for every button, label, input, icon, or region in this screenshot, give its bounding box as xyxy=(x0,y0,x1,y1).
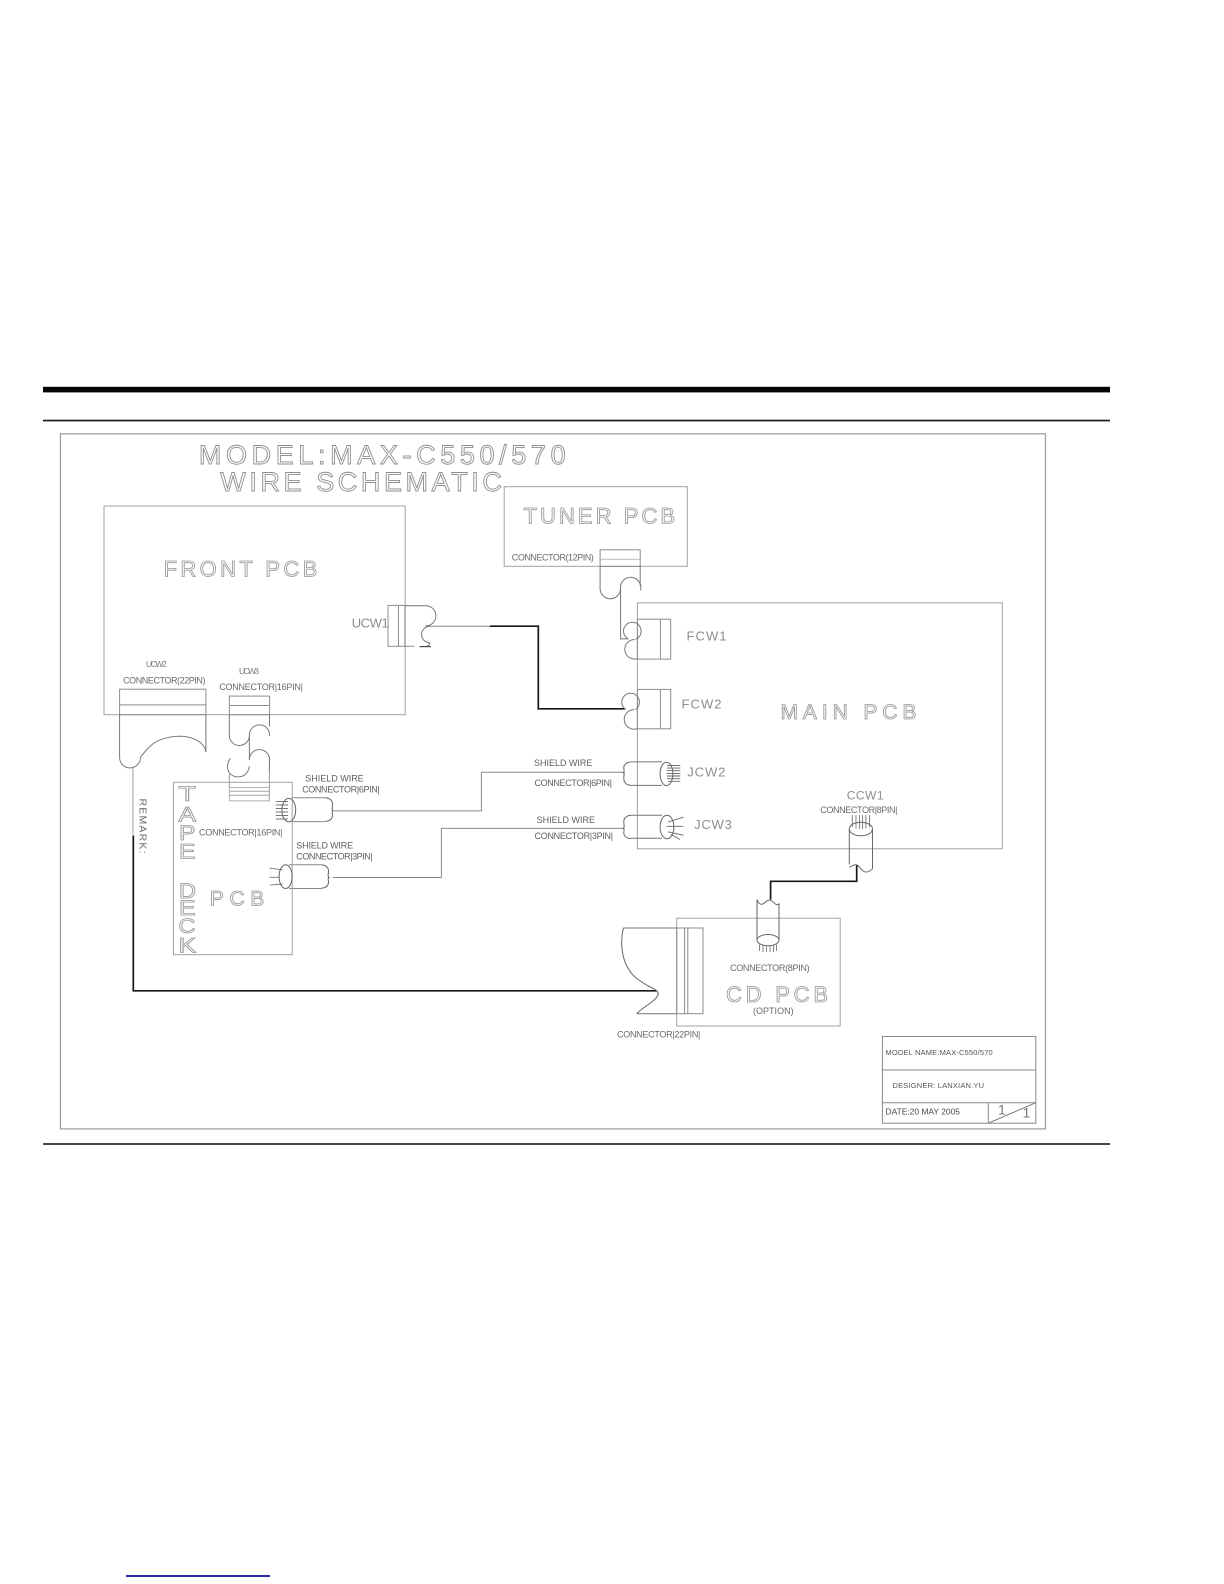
svg-text:DESIGNER: LANXIAN.YU: DESIGNER: LANXIAN.YU xyxy=(893,1081,985,1090)
svg-text:MODEL:MAX-C550/570: MODEL:MAX-C550/570 xyxy=(199,440,568,470)
title block designer xyxy=(893,1081,985,1090)
svg-text:CONNECTOR|3PIN|: CONNECTOR|3PIN| xyxy=(296,851,372,861)
svg-text:SHIELD WIRE: SHIELD WIRE xyxy=(537,815,595,825)
connector CD 8pin pins xyxy=(760,945,777,953)
wire tuner to FCW1 xyxy=(621,589,629,639)
connector JCW2 body lines xyxy=(631,762,662,786)
svg-text:UCW3: UCW3 xyxy=(239,666,259,676)
top thick rule xyxy=(43,387,1110,393)
connector UCW1 cable pigtail xyxy=(405,606,436,647)
svg-text:K: K xyxy=(179,935,197,958)
connector JCW2 brace xyxy=(623,762,631,786)
shield wire label (JCW3) xyxy=(537,815,595,825)
TAPE DECK vertical letters xyxy=(179,783,197,958)
svg-text:FRONT PCB: FRONT PCB xyxy=(164,557,318,582)
wire tape 6pin to JCW2 xyxy=(333,772,623,811)
connector JCW3 brace xyxy=(623,815,631,838)
svg-text:UCW2: UCW2 xyxy=(146,659,167,669)
FRONT PCB box xyxy=(104,506,405,715)
title block page total 1 xyxy=(1023,1105,1031,1121)
connector JCW3 body lines xyxy=(631,815,662,838)
connector FCW2 pigtail xyxy=(622,693,640,729)
title block outer box xyxy=(882,1037,1035,1124)
connector CD 8pin label xyxy=(730,963,810,973)
svg-text:MAIN PCB: MAIN PCB xyxy=(781,701,917,724)
wire UCW1 to FCW2 (black) xyxy=(490,626,625,709)
connector UCW1 label xyxy=(352,616,389,631)
connector JCW2 ellipse xyxy=(660,762,673,785)
svg-text:UCW1: UCW1 xyxy=(352,616,389,631)
svg-text:(OPTION): (OPTION) xyxy=(753,1006,794,1016)
svg-text:TUNER PCB: TUNER PCB xyxy=(524,504,676,529)
svg-text:FCW1: FCW1 xyxy=(687,629,727,644)
svg-text:CONNECTOR|16PIN|: CONNECTOR|16PIN| xyxy=(219,682,303,692)
connector tape 3pin ellipse xyxy=(279,865,292,889)
wire REMARK drop (light) xyxy=(132,768,134,835)
svg-text:CONNECTOR|6PIN|: CONNECTOR|6PIN| xyxy=(535,778,613,788)
tuner cable squiggle xyxy=(600,566,641,598)
shield wire label (tape 6pin) xyxy=(305,774,363,784)
svg-text:FCW2: FCW2 xyxy=(682,697,722,712)
connector tape 6pin ellipse xyxy=(282,798,296,821)
FRONT PCB label xyxy=(164,557,318,582)
wire UCW1 lead (gray) xyxy=(430,625,490,627)
connector tape 3pin fan pins xyxy=(269,868,282,885)
svg-text:WIRE SCHEMATIC: WIRE SCHEMATIC xyxy=(220,467,504,497)
TAPE DECK PCB box xyxy=(174,782,293,954)
connector 12PIN body xyxy=(600,550,640,567)
connector CD 8pin cable cylinder xyxy=(757,900,779,946)
wire tape 3pin to JCW3 xyxy=(333,828,623,877)
svg-text:CCW1: CCW1 xyxy=(847,788,884,802)
svg-text:CONNECTOR(12PIN): CONNECTOR(12PIN) xyxy=(512,552,594,562)
svg-text:CONNECTOR|16PIN|: CONNECTOR|16PIN| xyxy=(199,828,283,838)
schematic outer frame xyxy=(61,434,1046,1129)
connector JCW3 ellipse xyxy=(660,815,674,838)
connector UCW2 value label xyxy=(123,675,205,685)
connector CCW1 pins xyxy=(852,815,869,829)
svg-text:CONNECTOR|8PIN|: CONNECTOR|8PIN| xyxy=(820,805,897,815)
REMARK vertical text xyxy=(137,799,149,854)
svg-text:CONNECTOR|22PIN|: CONNECTOR|22PIN| xyxy=(617,1030,700,1040)
shield wire connector label (tape 6pin) xyxy=(302,785,380,795)
connector UCW2 label xyxy=(146,659,167,669)
wire CCW1 to CD 8pin (black) xyxy=(771,865,857,900)
svg-text:DATE:20 MAY 2005: DATE:20 MAY 2005 xyxy=(886,1107,961,1117)
title block date xyxy=(886,1107,961,1117)
svg-text:SHIELD WIRE: SHIELD WIRE xyxy=(296,841,353,851)
svg-text:JCW3: JCW3 xyxy=(694,817,732,832)
connector CCW1 value label xyxy=(820,805,897,815)
title block diagonal xyxy=(988,1103,1036,1124)
svg-text:CONNECTOR|3PIN|: CONNECTOR|3PIN| xyxy=(535,831,614,841)
connector tape 3pin brace xyxy=(321,865,329,889)
svg-text:1: 1 xyxy=(1023,1105,1031,1121)
TAPE DECK PCB label xyxy=(210,888,264,911)
shield wire connector label (JCW2) xyxy=(535,778,613,788)
shield wire connector label (tape 3pin) xyxy=(296,851,372,861)
connector FCW1 label xyxy=(687,629,727,644)
svg-text:SHIELD WIRE: SHIELD WIRE xyxy=(534,758,592,768)
title block page number 1 xyxy=(998,1102,1006,1118)
connector tape 6pin brace xyxy=(325,798,333,822)
connector tape 6pin pins xyxy=(276,802,288,820)
connector CCW1 cable cylinder xyxy=(849,822,872,872)
connector JCW3 label xyxy=(694,817,732,832)
connector UCW3 value label xyxy=(219,682,303,692)
title block row dividers xyxy=(882,1070,1035,1103)
connector 16PIN body (tape deck top) xyxy=(229,788,269,801)
TUNER PCB label xyxy=(524,504,676,529)
connector UCW2 cable xyxy=(120,715,206,768)
svg-text:E: E xyxy=(179,840,196,863)
svg-text:CD PCB: CD PCB xyxy=(726,982,828,1007)
svg-text:PCB: PCB xyxy=(210,888,264,911)
connector CD 22pin label xyxy=(617,1030,700,1040)
MAIN PCB box xyxy=(637,603,1002,849)
TUNER PCB box xyxy=(504,487,687,567)
connector CD 22pin cable S-curve xyxy=(622,928,658,1014)
connector UCW3 cable upper squiggle xyxy=(229,715,269,746)
title text line 1 xyxy=(199,440,568,470)
top thin rule xyxy=(43,420,1110,422)
connector 16PIN label (tape deck) xyxy=(199,828,283,838)
wire to CD 22pin (black) xyxy=(133,836,656,991)
connector CD 22pin body xyxy=(677,928,703,1014)
hyperlink underline bottom xyxy=(126,1575,270,1577)
CD PCB label xyxy=(726,982,828,1007)
connector FCW1 pigtail xyxy=(624,622,642,659)
connector UCW3 body xyxy=(229,696,269,715)
connector FCW2 body xyxy=(637,689,670,728)
connector UCW1 body xyxy=(388,605,405,646)
title text line 2 xyxy=(220,467,504,497)
connector UCW3 label xyxy=(239,666,259,676)
connector JCW3 fan pins xyxy=(667,817,684,839)
shield wire connector label (JCW3) xyxy=(535,831,614,841)
connector UCW2 body xyxy=(120,689,206,715)
CD PCB option label xyxy=(753,1006,794,1016)
svg-text:SHIELD WIRE: SHIELD WIRE xyxy=(305,774,363,784)
title block page cell divider xyxy=(987,1103,989,1124)
svg-text:CONNECTOR|6PIN|: CONNECTOR|6PIN| xyxy=(302,785,380,795)
shield wire label (tape 3pin) xyxy=(296,841,353,851)
svg-text:1: 1 xyxy=(998,1102,1006,1118)
connector FCW1 body xyxy=(637,619,670,659)
svg-text:MODEL NAME:MAX-C550/570: MODEL NAME:MAX-C550/570 xyxy=(886,1048,993,1057)
bottom rule xyxy=(43,1143,1110,1145)
connector FCW2 label xyxy=(682,697,722,712)
connector CD 22pin cable lines xyxy=(623,928,676,1014)
connector CCW1 label xyxy=(847,788,884,802)
connector JCW2 pins xyxy=(667,765,681,781)
connector 12PIN label xyxy=(512,552,594,562)
connector tape 3pin body lines xyxy=(289,865,321,889)
svg-text:JCW2: JCW2 xyxy=(687,765,725,780)
svg-text:CONNECTOR(22PIN): CONNECTOR(22PIN) xyxy=(123,675,205,685)
title block model name xyxy=(886,1048,993,1057)
CD PCB box xyxy=(677,918,841,1026)
MAIN PCB label xyxy=(781,701,917,724)
shield wire label (JCW2) xyxy=(534,758,592,768)
connector tape 6pin body lines xyxy=(292,798,325,822)
svg-text:REMARK:: REMARK: xyxy=(137,799,149,854)
connector JCW2 label xyxy=(687,765,725,780)
svg-text:CONNECTOR(8PIN): CONNECTOR(8PIN) xyxy=(730,963,810,973)
connector UCW3 cable lower squiggle xyxy=(228,736,270,801)
